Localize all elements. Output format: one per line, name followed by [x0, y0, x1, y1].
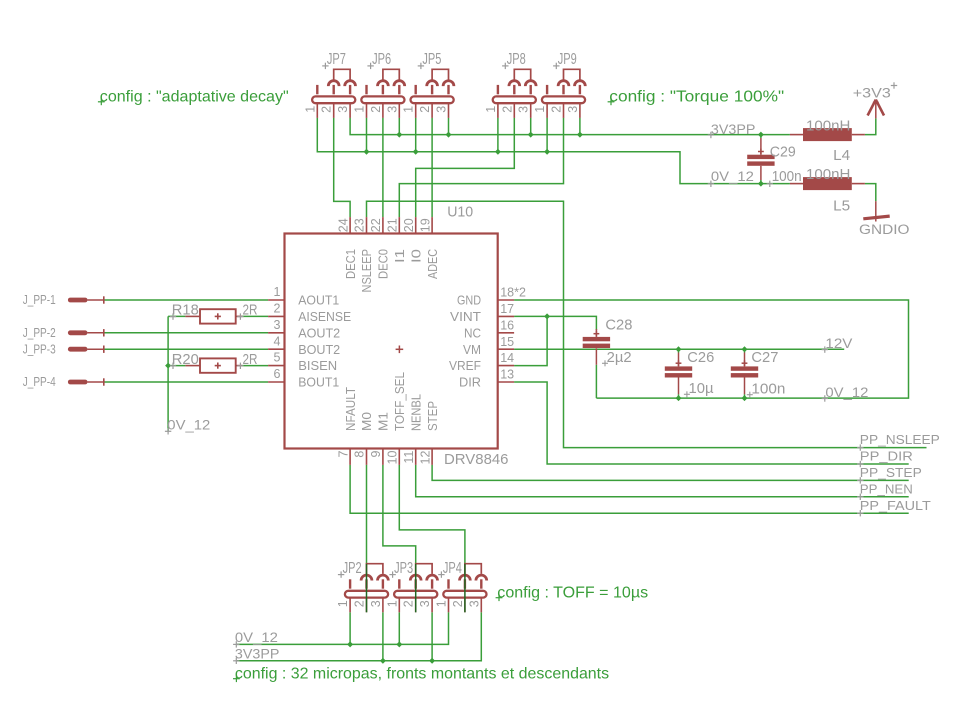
- svg-text:100n: 100n: [772, 168, 802, 185]
- svg-text:100nH: 100nH: [806, 117, 850, 134]
- svg-text:+3V3: +3V3: [853, 86, 891, 101]
- svg-text:3: 3: [418, 600, 432, 607]
- svg-text:16: 16: [500, 318, 514, 332]
- svg-text:M0: M0: [359, 412, 374, 431]
- svg-text:9: 9: [369, 451, 383, 458]
- svg-text:15: 15: [500, 335, 514, 349]
- svg-text:13: 13: [500, 368, 514, 382]
- svg-text:J_PP-2: J_PP-2: [23, 326, 56, 340]
- svg-text:config : "Torque 100%": config : "Torque 100%": [609, 88, 784, 105]
- svg-text:12V: 12V: [825, 336, 852, 351]
- svg-text:2R: 2R: [243, 351, 258, 368]
- svg-text:2: 2: [320, 106, 334, 113]
- svg-text:I0: I0: [408, 249, 423, 263]
- svg-text:2: 2: [451, 600, 465, 607]
- svg-text:C28: C28: [605, 317, 632, 334]
- svg-text:2R: 2R: [243, 302, 258, 319]
- svg-text:PP_DIR: PP_DIR: [860, 449, 913, 464]
- svg-text:AOUT2: AOUT2: [298, 325, 340, 340]
- svg-text:U10: U10: [447, 203, 473, 220]
- svg-text:3: 3: [274, 318, 281, 332]
- svg-text:VINT: VINT: [450, 309, 481, 324]
- svg-text:BOUT2: BOUT2: [298, 342, 340, 357]
- svg-text:NC: NC: [464, 325, 481, 340]
- svg-text:DIR: DIR: [459, 375, 481, 390]
- svg-text:1: 1: [435, 600, 449, 607]
- svg-text:0V_12: 0V_12: [167, 418, 210, 433]
- svg-text:PP_STEP: PP_STEP: [860, 465, 922, 480]
- svg-text:M1: M1: [376, 412, 391, 431]
- svg-text:VREF: VREF: [449, 358, 481, 373]
- svg-text:JP9: JP9: [558, 51, 577, 68]
- svg-text:1: 1: [385, 600, 399, 607]
- svg-text:8: 8: [353, 451, 367, 458]
- svg-text:7: 7: [336, 451, 350, 458]
- svg-text:1: 1: [402, 106, 416, 113]
- svg-text:100nH: 100nH: [806, 166, 850, 183]
- svg-text:C26: C26: [687, 349, 714, 366]
- svg-text:2: 2: [274, 302, 281, 316]
- svg-text:config : "adaptative decay": config : "adaptative decay": [100, 88, 289, 105]
- svg-text:3: 3: [566, 106, 580, 113]
- svg-text:JP7: JP7: [327, 51, 346, 68]
- svg-text:config : TOFF = 10µs: config : TOFF = 10µs: [497, 584, 648, 601]
- svg-text:NENBL: NENBL: [408, 394, 423, 431]
- svg-text:BISEN: BISEN: [298, 358, 337, 373]
- svg-text:3: 3: [435, 106, 449, 113]
- svg-text:0V_12: 0V_12: [825, 385, 868, 400]
- svg-text:DRV8846: DRV8846: [444, 451, 509, 468]
- svg-text:19: 19: [418, 218, 432, 232]
- svg-text:JP2: JP2: [343, 560, 362, 577]
- svg-text:DEC1: DEC1: [343, 249, 358, 279]
- svg-text:0V_12: 0V_12: [235, 630, 278, 645]
- svg-text:L4: L4: [833, 147, 850, 164]
- svg-text:10µ: 10µ: [689, 380, 714, 397]
- svg-text:3: 3: [336, 106, 350, 113]
- svg-text:NSLEEP: NSLEEP: [359, 249, 374, 293]
- svg-text:14: 14: [500, 351, 514, 365]
- svg-text:23: 23: [353, 218, 367, 232]
- svg-text:18*2: 18*2: [500, 286, 526, 300]
- svg-text:2µ2: 2µ2: [607, 349, 632, 366]
- svg-text:TOFF_SEL: TOFF_SEL: [392, 372, 407, 431]
- svg-text:2: 2: [550, 106, 564, 113]
- svg-text:AOUT1: AOUT1: [298, 293, 339, 308]
- svg-text:DEC0: DEC0: [376, 249, 391, 279]
- svg-text:2: 2: [353, 600, 367, 607]
- svg-text:12: 12: [418, 451, 432, 465]
- svg-text:4: 4: [274, 334, 281, 348]
- svg-text:11: 11: [402, 451, 416, 464]
- svg-text:PP_FAULT: PP_FAULT: [860, 498, 931, 513]
- svg-text:JP5: JP5: [422, 51, 441, 68]
- svg-text:21: 21: [386, 218, 400, 232]
- svg-text:ADEC: ADEC: [425, 249, 440, 279]
- svg-text:24: 24: [336, 218, 350, 232]
- svg-text:AISENSE: AISENSE: [298, 309, 351, 324]
- svg-text:JP8: JP8: [507, 51, 526, 68]
- svg-text:17: 17: [500, 302, 514, 316]
- svg-text:3: 3: [467, 600, 481, 607]
- svg-text:NFAULT: NFAULT: [343, 387, 358, 431]
- svg-text:STEP: STEP: [425, 401, 440, 431]
- svg-text:20: 20: [402, 218, 416, 232]
- svg-text:JP3: JP3: [394, 560, 413, 577]
- svg-text:PP_NEN: PP_NEN: [860, 481, 913, 496]
- svg-text:1: 1: [533, 106, 547, 113]
- svg-text:JP4: JP4: [443, 560, 462, 577]
- svg-text:1: 1: [353, 106, 367, 113]
- svg-text:JP6: JP6: [372, 51, 391, 68]
- svg-text:3V3PP: 3V3PP: [235, 646, 280, 661]
- svg-text:C27: C27: [751, 349, 778, 366]
- svg-text:1: 1: [274, 285, 281, 299]
- svg-text:3: 3: [385, 106, 399, 113]
- svg-text:VM: VM: [463, 342, 481, 357]
- svg-text:I1: I1: [392, 249, 407, 263]
- svg-text:5: 5: [274, 351, 281, 365]
- svg-text:0V_12: 0V_12: [711, 169, 754, 184]
- svg-text:100n: 100n: [751, 380, 785, 397]
- svg-text:3V3PP: 3V3PP: [711, 122, 756, 137]
- svg-text:J_PP-4: J_PP-4: [23, 375, 56, 389]
- svg-text:config : 32 micropas, fronts m: config : 32 micropas, fronts montants et…: [235, 665, 609, 682]
- svg-text:J_PP-3: J_PP-3: [23, 342, 56, 356]
- svg-text:3: 3: [369, 600, 383, 607]
- svg-text:22: 22: [369, 218, 383, 232]
- svg-text:PP_NSLEEP: PP_NSLEEP: [860, 432, 940, 447]
- svg-text:GNDIO: GNDIO: [859, 222, 910, 237]
- svg-text:2: 2: [369, 106, 383, 113]
- svg-text:L5: L5: [833, 197, 850, 214]
- svg-text:1: 1: [303, 106, 317, 113]
- svg-text:2: 2: [418, 106, 432, 113]
- svg-text:C29: C29: [770, 144, 796, 161]
- svg-text:6: 6: [274, 367, 281, 381]
- svg-text:2: 2: [402, 600, 416, 607]
- svg-text:BOUT1: BOUT1: [298, 375, 339, 390]
- svg-text:2: 2: [500, 106, 514, 113]
- svg-text:10: 10: [386, 451, 400, 465]
- svg-text:J_PP-1: J_PP-1: [23, 293, 56, 307]
- svg-text:3: 3: [517, 106, 531, 113]
- svg-text:1: 1: [484, 106, 498, 113]
- svg-text:1: 1: [336, 600, 350, 607]
- svg-text:GND: GND: [457, 293, 481, 308]
